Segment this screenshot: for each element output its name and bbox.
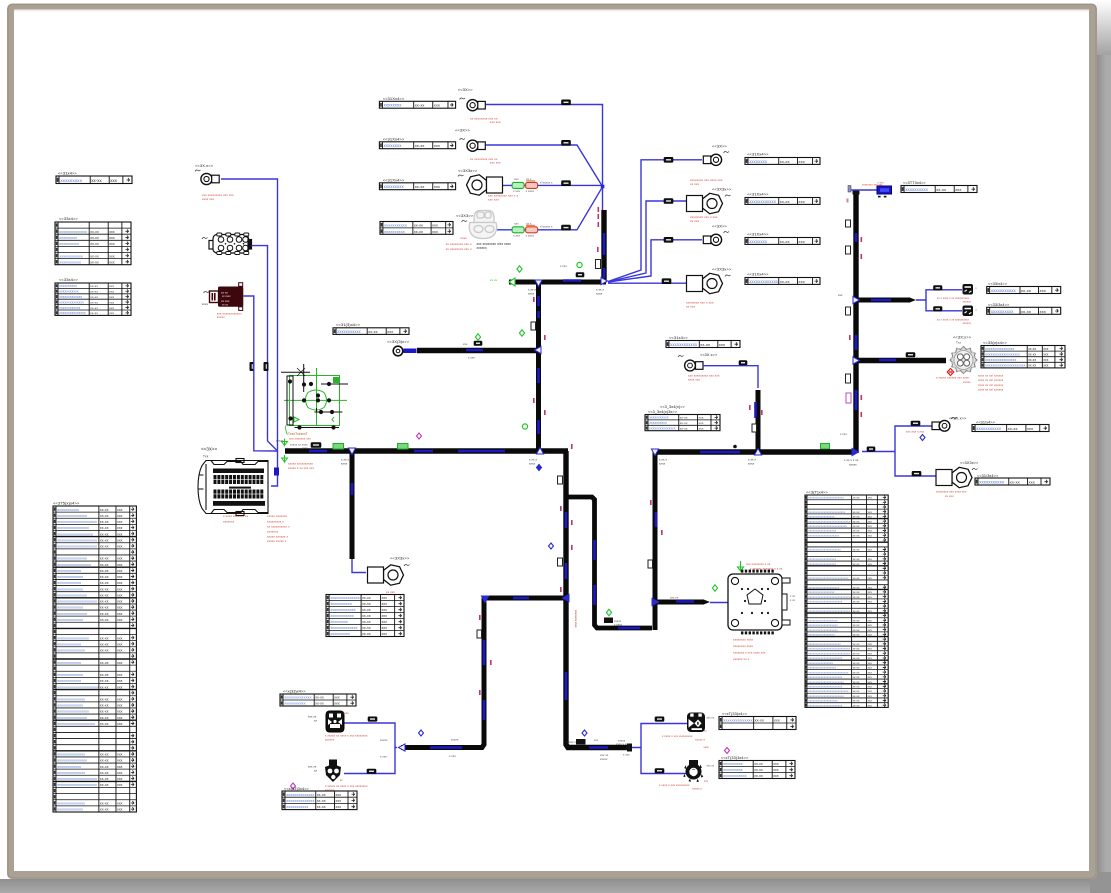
svg-text:xxxxxxxxxxx: xxxxxxxxxxx [649,416,669,420]
svg-text:xx: xx [314,719,317,723]
svg-text:xxxxxxxxxxxxxxxxxxxxxxx: xxxxxxxxxxxxxxxxxxxxxxx [808,496,844,500]
svg-text:xxxxxxxx xxxx: xxxxxxxx xxxx [574,610,578,628]
side boxes/ticks on trunk x604 [596,260,601,269]
connector BR2 [683,760,703,782]
svg-text:<<3X.x>>: <<3X.x>> [949,417,967,421]
svg-text:<<31Xx4>>: <<31Xx4>> [747,232,769,237]
svg-text:xx-xx: xx-xx [317,799,326,803]
svg-text:xx-xx: xx-xx [853,676,860,679]
svg-text:xxx: xxx [117,538,123,542]
side marks vertical C [477,630,482,638]
svg-text:xxxxx xxxxx x: xxxxx xxxxx x [267,539,287,543]
table N1 [666,341,740,348]
harness horizontal y282 (x510-604) [509,280,606,285]
svg-text:xxxx: xxxx [302,447,308,450]
svg-text:xxxxxxxxxxx: xxxxxxxxxxx [57,508,79,512]
svg-text:xxxxxxxxxxxxxxx: xxxxxxxxxxxxxxx [57,514,87,518]
svg-text:xxx: xxx [868,520,873,523]
svg-text:<<31x4>>: <<31x4>> [58,171,77,176]
svg-text:xx-xx: xx-xx [100,569,109,573]
svg-text:xx-xx: xx-xx [368,330,377,334]
junction at (604,282) [601,277,608,284]
svg-text:xxx: xxx [117,808,123,812]
svg-text:xx-xx: xx-xx [100,642,109,646]
svg-text:xx xx: xx xx [490,278,498,282]
svg-text:xxx: xxx [117,514,123,518]
svg-text:xxxxxxxxxxxx: xxxxxxxxxxxx [57,679,81,683]
black box (578,741) [576,739,586,745]
svg-text:xxxxxxxxxxxx: xxxxxxxxxxxx [59,254,83,258]
svg-text:xx-xx: xx-xx [853,525,860,528]
svg-text:xxx: xxx [117,673,123,677]
svg-text:xx-xx: xx-xx [853,601,860,604]
svg-text:xxxxxxxxxxxxxxxxxxxxx: xxxxxxxxxxxxxxxxxxxxx [808,642,841,646]
flower connector Q [950,347,977,374]
svg-text:xx-xx: xx-xx [853,586,860,589]
svg-text:xxx: xxx [117,685,123,689]
svg-text:<<3X>>: <<3X>> [458,87,473,92]
svg-text:xxxxxxxxxxxxx: xxxxxxxxxxxxx [57,606,83,610]
svg-text:xxx: xxx [868,690,873,693]
svg-text:xx xxxxxxxx xxx x: xx xxxxxxxx xxx x [446,247,472,251]
svg-text:xxx: xxx [117,802,123,806]
svg-text:xxxxxxxxxx: xxxxxxxxxx [330,632,350,636]
svg-text:xxx: xxx [117,661,123,665]
wire from barrel [252,246,278,451]
svg-text:xxxxxxxxxxxxxx: xxxxxxxxxxxxxx [57,697,85,701]
svg-text:xxx: xxx [868,648,873,651]
svg-text:xxxxxxxxxxxxxx: xxxxxxxxxxxxxx [59,230,87,234]
black box (604,618) [604,618,613,624]
svg-text:xx-xx: xx-xx [853,516,860,519]
svg-text:xx-xx: xx-xx [780,199,790,204]
svg-text:xx-xx: xx-xx [1021,288,1031,293]
svg-text:xx-xx: xx-xx [100,508,109,512]
svg-text:xxx: xxx [117,544,123,548]
svg-text:xxxx: xxxx [748,462,755,466]
svg-text:xx-xx: xx-xx [754,774,763,778]
svg-text:xxx: xxx [773,762,779,766]
svg-text:xx-xx: xx-xx [90,300,98,304]
svg-text:xx-xx: xx-xx [1028,364,1036,368]
green arrows harness start [282,439,288,446]
svg-text:xxx: xxx [117,606,123,610]
splice blocks T3 [512,182,524,188]
svg-text:xxxxxxxxxxxxxxxxxxxxxxxxxxxx: xxxxxxxxxxxxxxxxxxxxxxxxxxxx [808,595,852,599]
svg-text:xxx: xxx [868,596,873,599]
maroon connector (218,296) [204,291,210,293]
svg-text:xxxxxxxxxxxxxxxxxxx: xxxxxxxxxxxxxxxxxxx [808,618,838,622]
svg-text:xx-xx: xx-xx [755,719,764,723]
svg-text:xxx: xxx [334,696,340,700]
svg-text:xx-xx: xx-xx [853,563,860,566]
svg-text:xxx: xxx [109,290,114,294]
svg-text:xxxxxxxxxxxxxxxxxxxx: xxxxxxxxxxxxxxxxxxxx [808,533,840,537]
magenta diamond (419,436) [417,433,422,439]
svg-text:xxxxxxxxxxxxxxx: xxxxxxxxxxxxxxx [57,612,87,616]
svg-text:xxxxxxxxxxxxxxxxxxxxxx: xxxxxxxxxxxxxxxxxxxxxx [808,656,843,660]
svg-text:<<3X;x>>: <<3X;x>> [953,335,972,340]
harness trunk vertical x604 (y210-282) [601,210,606,283]
svg-text:xxxxxxxxxxxx: xxxxxxxxxxxx [330,614,353,618]
svg-text:xxx: xxx [109,254,115,258]
svg-text:xxx: xxx [1043,347,1048,351]
harness vertical right x856 (y192-452) [853,192,858,453]
svg-text:<<31Xx4>>: <<31Xx4>> [383,178,405,183]
svg-text:xxx: xxx [109,300,114,304]
wire N to x758 [703,366,758,388]
svg-text:<<31/x4>>: <<31/x4>> [976,421,996,425]
svg-text:xxx: xxx [774,719,780,723]
svg-text:<<3X3x>>: <<3X3x>> [712,187,732,192]
svg-text:xxx: xxx [868,657,873,660]
svg-text:xxxxxxxxxx: xxxxxxxxxx [723,762,743,766]
svg-text:xxxxxxxxxxxx: xxxxxxxxxxxx [723,774,746,778]
svg-text:xxx: xxx [117,649,123,653]
svg-text:xxxxxxxxxxxxxxxxxx: xxxxxxxxxxxxxxxxxx [57,532,93,536]
svg-text:xxxxxxxxxxxxxx: xxxxxxxxxxxxxx [286,799,314,803]
svg-text:xxxxx: xxxxx [217,315,225,319]
svg-text:xxxxxxxx xxx xxx: xxxxxxxx xxx xxx [862,184,883,187]
top cap x856 + side marks [853,190,860,195]
svg-text:x xx: x xx [790,599,796,602]
terminal R2 big [936,467,972,487]
big wire table right [805,495,888,707]
svg-text:xxx: xxx [1043,364,1048,368]
svg-text:Txx: Txx [203,455,209,459]
svg-text:xxxxxxxxxxxxxxx: xxxxxxxxxxxxxxx [57,716,87,720]
svg-text:xxxxxxxxxxx: xxxxxxxxxxx [286,805,308,809]
svg-text:xxxxxxxxxx: xxxxxxxxxx [991,309,1014,314]
harness horizontal y598 (x484-566) [484,596,566,601]
wire label box into ECU [274,468,279,476]
svg-text:xxx: xxx [699,416,704,420]
svg-text:xxxxxxxxxxxxxx: xxxxxxxxxxxxxx [330,626,357,630]
svg-text:xxxxxxxxxxxxxxxx: xxxxxxxxxxxxxxxx [985,347,1015,351]
svg-text:xx-xx: xx-xx [90,260,99,264]
harness vertical x538 (y282-451) [536,282,541,451]
svg-text:xxx: xxx [704,780,709,783]
side marks vertical x538 [531,322,536,330]
svg-text:xxx: xxx [382,620,388,624]
svg-text:xx-xx: xx-xx [100,526,109,530]
junction at (401,748) [398,744,405,751]
svg-text:xxx: xxx [432,230,438,234]
svg-text:xxxxxxxxxxxxxxxxxxxxxxxxxxx: xxxxxxxxxxxxxxxxxxxxxxxxxxx [808,651,850,655]
svg-text:xxx: xxx [117,618,123,622]
svg-text:xxx: xxx [109,306,114,310]
svg-text:xxxxxxxxxxxxx: xxxxxxxxxxxxx [330,608,355,612]
svg-text:xx-xx: xx-xx [415,184,425,189]
svg-text:x xxx: x xxx [468,356,475,360]
svg-text:xxxxx: xxxxx [380,738,388,742]
svg-text:xxx: xxx [117,777,123,781]
svg-text:xx-xx: xx-xx [100,722,109,726]
svg-text:xxxxxxx x xxx xxxx xxx: xxxxxxx x xxx xxxx xxx [733,651,766,655]
barrel connector (213,244) [202,237,208,239]
wire from junction 856,452 [862,426,932,452]
svg-text:xxx xxx x xxx: xxx xxx x xxx [906,430,925,434]
svg-text:xxx: xxx [117,642,123,646]
svg-text:x xxx: x xxx [560,264,567,268]
black dot on H2 [733,445,737,449]
svg-text:xx-xx: xx-xx [100,532,109,536]
svg-text:<<31x4>>: <<31x4>> [669,335,688,340]
svg-text:xx-xx: xx-xx [90,236,99,240]
svg-text:xxx: xxx [699,427,704,431]
green diamond (478,337) [475,334,480,340]
svg-text:xxxxxxxxxxxxxxxxxxxxxxx: xxxxxxxxxxxxxxxxxxxxxxx [808,694,844,698]
svg-text:xx-xx: xx-xx [853,619,860,622]
harness branch y360 (x856-948) [856,358,946,363]
svg-text:xxxxxxxxxxxxxxxxxx: xxxxxxxxxxxxxxxxxx [808,529,836,533]
svg-text:x xxx: x xxx [840,432,847,436]
magenta diamond (293,786) [291,783,296,789]
svg-text:xx-xx: xx-xx [1028,347,1036,351]
connector table K1 [379,101,455,108]
svg-text:xx-xx: xx-xx [315,702,324,706]
svg-text:xx-xx: xx-xx [100,563,109,567]
svg-text:xxx: xxx [434,184,440,189]
svg-text:x*xxxxx x: x*xxxxx x [540,181,553,185]
svg-text:xxx: xxx [117,704,123,708]
table L3 (6 rows) [55,283,131,315]
svg-text:xx-xx: xx-xx [853,690,860,693]
svg-text:xx-xx: xx-xx [362,626,371,630]
svg-text:xxxxxxxxxxxxx: xxxxxxxxxxxxx [749,279,779,284]
junction at (856,300) [853,296,860,303]
svg-text:xxxxxxxx xxxx: xxxxxxxx xxxx [733,644,754,648]
svg-text:xx-xx: xx-xx [100,606,109,610]
svg-text:xx-xx: xx-xx [853,634,860,637]
svg-text:xxxxxxxxxxxx: xxxxxxxxxxxx [749,199,777,204]
svg-text:xx-xx: xx-xx [700,342,710,347]
table L1 (1 row) [56,176,132,184]
svg-text:xxx: xxx [868,643,873,646]
svg-text:xxxxxxxxxxxxxxxxx: xxxxxxxxxxxxxxxxx [808,590,835,594]
svg-text:<<3X.x>>: <<3X.x>> [195,163,214,168]
terminal R1 small [932,422,940,430]
svg-text:xxx: xxx [117,679,123,683]
svg-text:xxxx xxx: xxxx xxx [202,197,215,201]
label box on y360 [906,353,915,358]
svg-text:xxxxxxxxxx: xxxxxxxxxx [905,187,928,192]
svg-text:xxx: xxx [117,771,123,775]
svg-text:xx-xx: xx-xx [853,497,860,500]
svg-text:xx-xx: xx-xx [853,577,860,580]
svg-text:xx-xx: xx-xx [90,254,99,258]
svg-text:<<3X>>: <<3X>> [455,128,470,133]
svg-text:xx xxxxxxxxxx x: xx xxxxxxxxxx x [267,525,290,529]
svg-text:xxx: xxx [382,602,388,606]
svg-text:xx-xx: xx-xx [853,662,860,665]
svg-text:xx-xx: xx-xx [100,587,109,591]
svg-text:x xxx: x xxx [380,755,387,759]
svg-text:xxx: xxx [868,681,873,684]
wire T3 [502,184,603,186]
svg-text:xx-xx: xx-xx [100,661,109,665]
wire to blue box [851,189,877,191]
svg-text:xx-xx: xx-xx [100,716,109,720]
svg-text:xx xx: xx xx [221,291,228,295]
svg-text:xxxx: xxxx [202,302,209,306]
svg-text:xx xxx: xx xxx [686,305,696,309]
svg-text:xxx: xxx [868,610,873,613]
svg-text:xx-xx: xx-xx [853,591,860,594]
svg-text:<<3X3>>: <<3X3>> [456,213,474,218]
svg-text:xxx: xxx [868,601,873,604]
svg-text:<<3X3x>>: <<3X3x>> [458,168,478,173]
svg-text:xx-xx: xx-xx [100,777,109,781]
svg-text:xxx: xxx [117,569,123,573]
svg-text:xxx: xxx [117,600,123,604]
svg-text:xxx: xxx [117,587,123,591]
svg-text:xxxx xxx: xxxx xxx [688,378,701,382]
svg-text:xxxx xx xx/ xxxxxx: xxxx xx xx/ xxxxxx [978,383,1004,387]
svg-text:xxxxxxxx: xxxxxxxx [749,159,768,164]
svg-text:xxx: xxx [868,634,873,637]
svg-text:xxxxxxxxxxxxxxxxxxxx: xxxxxxxxxxxxxxxxxxxx [57,600,97,604]
svg-text:<<31Xx4>>: <<31Xx4>> [383,96,405,101]
svg-text:xx-xx: xx-xx [1028,352,1036,356]
svg-text:xx-xx: xx-xx [100,618,109,622]
svg-text:xxxxxxxxxxxxxxxxx: xxxxxxxxxxxxxxxxx [57,563,91,567]
table P2 [987,307,1061,314]
svg-text:xxxxxxxxxxxxxxxxxxxxxx: xxxxxxxxxxxxxxxxxxxxxx [985,364,1026,368]
svg-text:xxxxxxxxxxxxxxxxxxxx: xxxxxxxxxxxxxxxxxxxx [57,544,97,548]
svg-text:xxx: xxx [699,421,704,425]
svg-text:xxxxxxxxxxxxx: xxxxxxxxxxxxx [57,704,83,708]
svg-text:xxxxxxxxxxx: xxxxxxxxxxx [59,290,79,294]
svg-text:xxxx xx xx/ xxxxxx: xxxx xx xx/ xxxxxx [978,374,1004,378]
label boxes on T1-T4 wires [562,100,571,105]
junction at (538,350) [534,346,541,353]
side marks vertical D [648,560,653,568]
svg-text:xxxxxxxx xxxx: xxxxxxxx xxxx [733,638,754,642]
svg-text:xxxxxxxxxx: xxxxxxxxxx [59,242,79,246]
wire T2 [486,145,603,187]
svg-text:xx-xx: xx-xx [100,673,109,677]
svg-text:xxx: xxx [868,497,873,500]
svg-text:<<33/x4>>: <<33/x4>> [988,282,1008,286]
svg-text:xxxxxxxxxxxxxxxxxxxxxxxxxxx: xxxxxxxxxxxxxxxxxxxxxxxxxxx [808,647,850,651]
svg-text:xxxxxxxxxx: xxxxxxxxxx [649,421,667,425]
svg-text:Txx: Txx [956,341,962,345]
svg-text:xxx: xxx [838,293,843,297]
svg-text:xxx: xxx [868,511,873,514]
svg-text:xxx: xxx [117,557,123,561]
svg-text:xxxx: xxxx [529,462,536,466]
harness vertical x758 (y390-452) [756,390,761,452]
svg-text:xx-xx: xx-xx [317,793,326,797]
svg-text:<<3X(3)x>>: <<3X(3)x>> [387,339,410,344]
svg-text:xxxxxxxxxxxx: xxxxxxxxxxxx [670,342,698,347]
svg-text:xxx: xxx [109,236,115,240]
svg-text:xx-xx: xx-xx [853,657,860,660]
svg-text:<<31Xx4>>: <<31Xx4>> [747,272,769,277]
svg-text:xxxxx: xxxxx [963,380,971,384]
svg-text:xxx: xxx [868,516,873,519]
svg-text:xxx: xxx [868,525,873,528]
junction at (856,360) [853,357,860,364]
svg-text:xxx: xxx [868,629,873,632]
svg-text:xx-xx: xx-xx [100,808,109,812]
harness main horizontal y451 (x285-568) [285,448,568,453]
table BR1 (2 rows) [719,717,796,730]
svg-text:xxxxxxxxxxxxxxxxxxx: xxxxxxxxxxxxxxxxxxx [808,628,838,632]
svg-text:xxx: xxx [868,704,873,707]
svg-text:xxx: xxx [799,239,805,244]
svg-text:xx xxx: xx xxx [945,494,954,498]
svg-text:xx-xx: xx-xx [100,593,109,597]
svg-text:xxxxxxxxxx: xxxxxxxxxx [59,284,77,288]
svg-text:xxxxxxxxxxxxxxxxxxxxxx: xxxxxxxxxxxxxxxxxxxxxx [808,703,843,707]
svg-text:xx-xx: xx-xx [90,311,98,315]
svg-text:xxxx: xxxx [596,292,603,296]
svg-text:xxx: xxx [109,230,115,234]
terminal L-ring (200,179) [201,173,219,184]
svg-text:xxxx x xxx: xxxx x xxx [616,743,630,746]
ECU pin rows [213,469,264,474]
svg-text:<<33x4>>: <<33x4>> [59,277,78,282]
side marks on x758 [752,424,757,432]
svg-text:xxx: xxx [868,577,873,580]
table R2 [975,478,1050,485]
side marks on x856 [846,220,851,227]
svg-text:xxxxxxxxxxxxx: xxxxxxxxxxxxx [57,587,83,591]
svg-text:xxxxxxxxxxxxxxxxxxxxxxxxxx: xxxxxxxxxxxxxxxxxxxxxxxxxx [808,576,849,580]
blue diamond (421,733) [419,730,424,736]
svg-text:xxxxx xxxxxx x: xxxxx xxxxxx x [267,535,288,539]
svg-text:xxxxxxxxxxxxxxxxxxxxxxx: xxxxxxxxxxxxxxxxxxxxxxx [808,680,844,684]
svg-text:<<x(33)3x4>>: <<x(33)3x4>> [284,787,310,791]
svg-text:xxxxxxxxxxxxxx: xxxxxxxxxxxxxx [57,802,85,806]
svg-text:xxxxxxxxxxxxxx: xxxxxxxxxxxxxx [57,649,85,653]
svg-text:xx-xx: xx-xx [853,704,860,707]
terminal T2 [460,138,466,140]
svg-text:xxx: xxx [868,563,873,566]
svg-text:xxx: xxx [955,187,961,192]
svg-text:xx-xx: xx-xx [90,306,98,310]
svg-text:xx-xx: xx-xx [853,667,860,670]
green diamond near V538 [519,330,524,336]
svg-text:xxxxxxxxxxxxxxxxxxxxxxxxxx: xxxxxxxxxxxxxxxxxxxxxxxxxx [808,670,849,674]
svg-text:xxxxxxxxxxxxxxxxxx: xxxxxxxxxxxxxxxxxx [808,666,836,670]
svg-text:xxxxx: xxxxx [276,439,284,443]
side marks vertical x604 top [598,222,600,227]
svg-text:xxxxxxxxxxxxxxx: xxxxxxxxxxxxxxx [57,593,87,597]
connector BR1 [687,713,705,733]
svg-text:<<3(T)x4>>: <<3(T)x4>> [806,490,828,495]
svg-text:xxx: xxx [336,805,342,809]
svg-text:xx-xx: xx-xx [853,530,860,533]
wire x352 end to terminal S [352,559,366,573]
svg-text:xx-xx: xx-xx [853,652,860,655]
svg-text:xx xxxxxxxx xxx x: xx xxxxxxxx xxx x [446,242,472,246]
svg-text:x xxxx x xxx xxxxxxxxx: x xxxx x xxx xxxxxxxxx [659,783,690,787]
svg-text:xx-xx: xx-xx [100,600,109,604]
svg-text:xxx: xxx [382,614,388,618]
svg-text:x xx: x xx [790,595,796,598]
svg-text:xxxx: xxxx [341,462,348,466]
svg-text:xxxxxxxxxxxxxx: xxxxxxxxxxxxxx [57,753,85,757]
svg-text:xxxxx x xx xxx xxx: xxxxx x xx xxx xxx [288,466,315,470]
svg-text:xxx: xxx [334,702,340,706]
svg-text:xxxxxxxxxxxxxxxxxx: xxxxxxxxxxxxxxxxxx [808,562,836,566]
wire T5 [608,160,702,282]
green circle (525,426) [522,424,527,429]
svg-text:<<xT(33)3x4>>: <<xT(33)3x4>> [721,756,749,760]
